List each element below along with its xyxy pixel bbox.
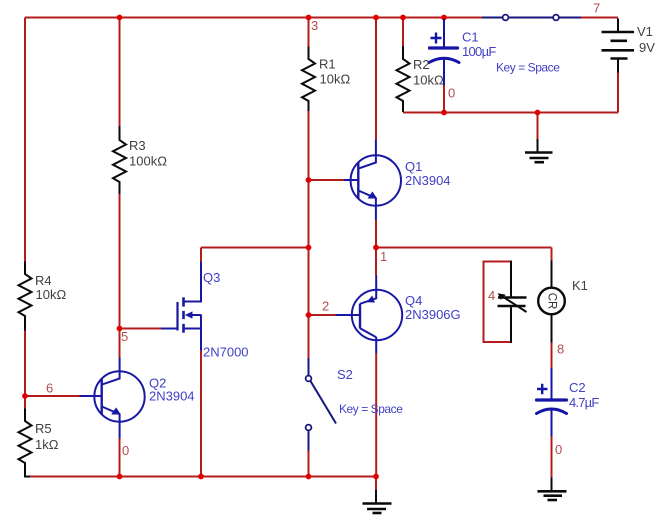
svg-text:1kΩ: 1kΩ: [35, 437, 59, 452]
svg-text:8: 8: [557, 342, 564, 357]
wire node6 Q2 base: [25, 395, 80, 397]
svg-text:4: 4: [488, 288, 495, 303]
svg-text:R2: R2: [413, 57, 430, 72]
node 0 junction ground rail: [373, 474, 379, 480]
wire Q1 base: [309, 179, 345, 181]
node junction Q1 collector top: [373, 15, 379, 21]
svg-text:0: 0: [555, 442, 562, 457]
svg-text:1: 1: [380, 249, 387, 264]
ground (bottom rail): [363, 490, 392, 513]
resistor R1: [302, 47, 315, 112]
node 6 junction: [22, 393, 28, 399]
svg-text:10kΩ: 10kΩ: [320, 72, 351, 87]
svg-text:0: 0: [122, 443, 129, 458]
wire Q3 source bottom: [200, 350, 202, 477]
wire bottom rail: [25, 476, 377, 478]
svg-text:0: 0: [448, 86, 455, 101]
wire Q1 emitter to Q4: [375, 220, 377, 276]
svg-text:Q1: Q1: [405, 159, 422, 174]
node junction R3 top: [117, 15, 123, 21]
ground (C2): [538, 478, 567, 501]
wire Q2 emitter bottom: [119, 438, 121, 477]
node 1 junction: [373, 245, 379, 251]
svg-text:2N3906G: 2N3906G: [405, 307, 461, 322]
wire C1 bottom: [443, 85, 445, 113]
node 3 junction: [306, 15, 312, 21]
svg-text:10kΩ: 10kΩ: [36, 287, 67, 302]
battery V1: [602, 19, 635, 73]
svg-text:2: 2: [322, 299, 329, 314]
wire relay contact loop box: [484, 262, 512, 343]
svg-text:Key = Space: Key = Space: [496, 61, 560, 75]
wire battery bottom row: [403, 73, 618, 113]
wire ground stub bottom: [375, 477, 377, 491]
svg-text:CR: CR: [546, 293, 558, 310]
resistor R3: [113, 126, 126, 194]
transistor Q1 (NPN 2N3904): [344, 140, 401, 220]
svg-text:R3: R3: [129, 138, 146, 153]
wire node1 right to K1: [376, 248, 552, 262]
wire node2 Q4 base: [309, 314, 337, 316]
wire C2 bottom: [551, 436, 553, 478]
wire node3 column: [308, 18, 310, 359]
svg-text:100kΩ: 100kΩ: [129, 154, 167, 169]
wire R2 column: [402, 18, 404, 47]
node junction ground battery: [535, 110, 541, 116]
svg-text:Q3: Q3: [203, 270, 220, 285]
node junction Q2 emitter rail: [117, 474, 123, 480]
svg-text:100µF: 100µF: [462, 44, 496, 59]
resistor R5: [19, 409, 32, 477]
transistor Q3 (NMOS 2N7000): [161, 262, 201, 351]
svg-text:10kΩ: 10kΩ: [413, 73, 444, 88]
wire left column: [24, 18, 26, 410]
wire S2 bottom: [308, 450, 310, 477]
wire Q1 collector column: [375, 18, 377, 141]
node junction y247 left: [306, 245, 312, 251]
node junction S2 rail: [306, 474, 312, 480]
wire ground stub battery: [537, 113, 539, 140]
svg-text:Q4: Q4: [405, 293, 422, 308]
switch S1 (Key=Space, closed): [482, 15, 581, 21]
wire top right to battery: [581, 17, 619, 19]
capacitor C2: [537, 368, 567, 437]
resistor R2: [397, 46, 410, 112]
svg-text:4.7µF: 4.7µF: [569, 395, 599, 410]
svg-text:3: 3: [311, 18, 318, 33]
wire top rail: [25, 17, 482, 19]
svg-text:2N3904: 2N3904: [149, 389, 195, 404]
wire node8 K1 to C2: [551, 342, 553, 369]
node 2 junction: [306, 312, 312, 318]
svg-text:S2: S2: [337, 367, 353, 382]
svg-text:R5: R5: [35, 421, 52, 436]
node junction C1 top: [441, 15, 447, 21]
node 5 junction: [117, 326, 123, 332]
wire node1 left: [201, 248, 309, 263]
relay coil K1: [538, 261, 565, 343]
svg-text:R1: R1: [319, 57, 336, 72]
wire R3 column: [119, 18, 121, 359]
relay contact (node 4): [498, 261, 527, 344]
svg-text:K1: K1: [572, 278, 588, 293]
svg-text:C1: C1: [462, 30, 479, 45]
wire node5 gate: [120, 328, 162, 330]
node junction Q3 source rail: [198, 474, 204, 480]
node junction Q1 base: [306, 177, 312, 183]
resistor R4: [19, 262, 32, 331]
ground (battery): [525, 139, 553, 162]
svg-text:6: 6: [46, 381, 53, 396]
node junction R2 top: [400, 15, 406, 21]
svg-text:9V: 9V: [639, 40, 655, 55]
transistor Q2 (NPN 2N3904): [80, 358, 145, 439]
svg-text:C2: C2: [569, 380, 586, 395]
svg-text:5: 5: [121, 329, 128, 344]
capacitor C1: [429, 19, 459, 85]
svg-text:7: 7: [593, 1, 600, 16]
node junction C1 bottom: [441, 110, 447, 116]
transistor Q4 (PNP 2N3906G): [336, 275, 403, 353]
svg-text:V1: V1: [637, 24, 653, 39]
svg-text:Key = Space: Key = Space: [339, 402, 403, 416]
switch S2 (open): [306, 358, 336, 451]
wire Q4 collector down: [375, 353, 377, 477]
svg-text:R4: R4: [35, 273, 52, 288]
svg-text:2N7000: 2N7000: [203, 345, 249, 360]
svg-text:2N3904: 2N3904: [405, 173, 451, 188]
